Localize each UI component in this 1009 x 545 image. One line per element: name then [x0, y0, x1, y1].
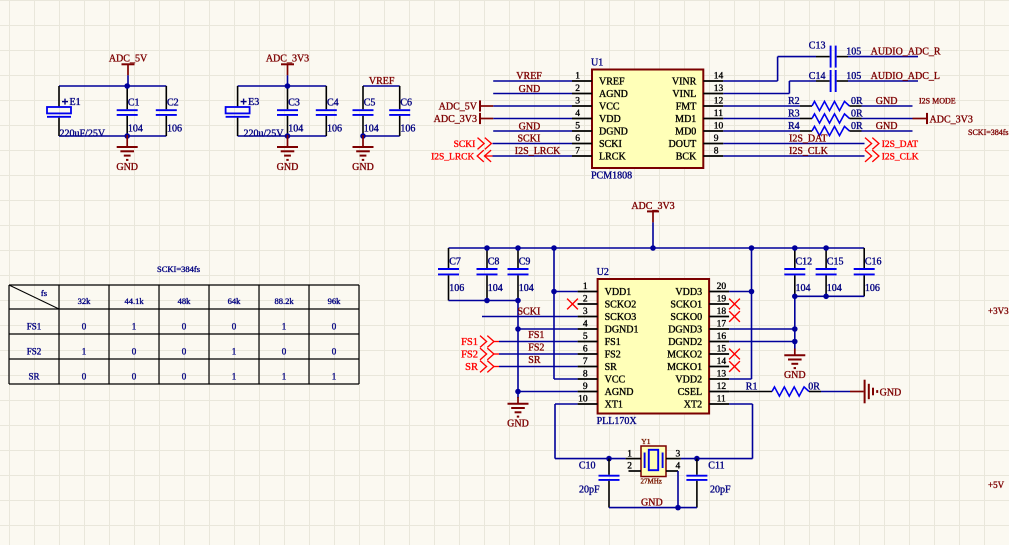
svg-text:3: 3: [676, 449, 681, 459]
svg-text:SCKO3: SCKO3: [605, 312, 637, 323]
svg-text:AUDIO_ADC_R: AUDIO_ADC_R: [871, 47, 941, 58]
svg-text:105: 105: [846, 71, 861, 82]
svg-text:+3V3: +3V3: [988, 306, 1009, 316]
svg-text:I2S_DAT: I2S_DAT: [789, 133, 827, 144]
svg-text:MD1: MD1: [675, 114, 696, 125]
svg-text:LRCK: LRCK: [599, 152, 626, 163]
svg-text:5: 5: [575, 121, 580, 131]
svg-text:0: 0: [82, 322, 87, 332]
svg-text:C10: C10: [579, 460, 596, 471]
svg-text:R3: R3: [788, 108, 800, 119]
svg-text:20pF: 20pF: [579, 485, 600, 496]
svg-text:15: 15: [717, 344, 727, 354]
svg-text:0: 0: [132, 372, 137, 382]
svg-text:4: 4: [676, 462, 681, 472]
svg-text:SCKI=384fs: SCKI=384fs: [968, 128, 1009, 137]
svg-text:DOUT: DOUT: [669, 139, 697, 150]
svg-text:MCKO1: MCKO1: [667, 362, 702, 373]
svg-text:1: 1: [282, 322, 287, 332]
svg-text:VREF: VREF: [516, 71, 542, 82]
svg-text:9: 9: [714, 134, 719, 144]
svg-text:12: 12: [714, 96, 724, 106]
svg-text:1: 1: [82, 347, 87, 357]
svg-text:FS2: FS2: [461, 349, 478, 360]
svg-text:0: 0: [182, 322, 187, 332]
svg-text:FS1: FS1: [461, 337, 478, 348]
svg-text:106: 106: [400, 123, 415, 134]
svg-text:14: 14: [714, 71, 724, 81]
svg-text:PCM1808: PCM1808: [591, 171, 632, 182]
svg-text:XT2: XT2: [684, 400, 702, 411]
svg-text:18: 18: [717, 307, 727, 317]
svg-text:VINR: VINR: [672, 77, 697, 88]
svg-text:DGND: DGND: [599, 127, 628, 138]
svg-text:8: 8: [714, 146, 719, 156]
svg-text:FS1: FS1: [605, 337, 621, 348]
svg-text:0R: 0R: [851, 108, 863, 119]
svg-text:8: 8: [583, 369, 588, 379]
svg-text:GND: GND: [876, 121, 898, 132]
svg-text:FS1: FS1: [528, 330, 544, 341]
svg-text:C8: C8: [488, 257, 500, 268]
svg-text:ADC_3V3: ADC_3V3: [434, 114, 477, 125]
svg-text:0: 0: [232, 322, 237, 332]
svg-text:220uF/25V: 220uF/25V: [60, 128, 106, 139]
svg-text:R1: R1: [746, 381, 758, 392]
svg-text:3: 3: [575, 96, 580, 106]
svg-text:I2S MODE: I2S MODE: [919, 97, 956, 106]
svg-text:ADC_3V3: ADC_3V3: [631, 201, 674, 212]
svg-text:C3: C3: [288, 98, 300, 109]
svg-text:SCKO2: SCKO2: [605, 300, 637, 311]
svg-text:C9: C9: [519, 257, 531, 268]
svg-text:C16: C16: [865, 257, 882, 268]
svg-text:10: 10: [578, 394, 588, 404]
svg-text:0: 0: [332, 347, 337, 357]
svg-text:SCKI: SCKI: [518, 306, 541, 317]
svg-text:2: 2: [627, 462, 632, 472]
svg-text:FS2: FS2: [528, 342, 544, 353]
svg-text:VCC: VCC: [599, 102, 620, 113]
svg-text:U1: U1: [591, 58, 603, 69]
svg-text:1: 1: [575, 71, 580, 81]
svg-text:FMT: FMT: [676, 102, 697, 113]
svg-text:106: 106: [865, 283, 880, 294]
svg-text:1: 1: [132, 322, 137, 332]
svg-text:104: 104: [519, 283, 534, 294]
svg-text:0R: 0R: [851, 121, 863, 132]
svg-text:1: 1: [232, 372, 237, 382]
svg-text:13: 13: [717, 369, 727, 379]
svg-text:7: 7: [583, 357, 588, 367]
svg-text:ADC_3V3: ADC_3V3: [266, 54, 309, 65]
svg-text:VREF: VREF: [369, 76, 395, 87]
svg-text:GND: GND: [641, 497, 663, 508]
svg-text:17: 17: [717, 319, 727, 329]
svg-text:10: 10: [714, 121, 724, 131]
svg-text:GND: GND: [277, 162, 299, 173]
svg-text:220u/25V: 220u/25V: [244, 128, 285, 139]
svg-text:0: 0: [332, 322, 337, 332]
svg-text:VDD3: VDD3: [675, 287, 702, 298]
svg-text:104: 104: [488, 283, 503, 294]
svg-text:ADC_5V: ADC_5V: [109, 54, 148, 65]
svg-text:AUDIO_ADC_L: AUDIO_ADC_L: [871, 71, 940, 82]
svg-text:64k: 64k: [228, 296, 242, 306]
svg-text:PLL170X: PLL170X: [597, 416, 638, 427]
svg-text:GND: GND: [519, 84, 541, 95]
svg-text:104: 104: [827, 283, 842, 294]
svg-text:R2: R2: [788, 96, 800, 107]
svg-text:GND: GND: [784, 370, 806, 381]
svg-text:DGND1: DGND1: [605, 325, 639, 336]
svg-text:106: 106: [449, 283, 464, 294]
svg-text:SCKI: SCKI: [518, 134, 541, 145]
svg-text:104: 104: [796, 283, 811, 294]
svg-text:I2S_DAT: I2S_DAT: [882, 140, 919, 150]
svg-text:27MHz: 27MHz: [641, 478, 662, 486]
svg-text:C14: C14: [809, 71, 826, 82]
svg-text:C12: C12: [796, 257, 813, 268]
svg-text:SR: SR: [465, 362, 478, 373]
svg-text:0: 0: [182, 347, 187, 357]
svg-text:1: 1: [282, 372, 287, 382]
svg-text:MCKO2: MCKO2: [667, 350, 702, 361]
svg-text:4: 4: [583, 319, 588, 329]
svg-text:96k: 96k: [328, 296, 342, 306]
svg-text:32k: 32k: [78, 296, 92, 306]
svg-text:19: 19: [717, 294, 727, 304]
svg-text:FS2: FS2: [27, 347, 42, 357]
svg-text:U2: U2: [597, 267, 609, 278]
svg-text:6: 6: [583, 344, 588, 354]
svg-text:1: 1: [332, 372, 337, 382]
svg-text:2: 2: [575, 84, 580, 94]
svg-text:E3: E3: [248, 97, 259, 108]
svg-text:GND: GND: [352, 162, 374, 173]
svg-text:104: 104: [288, 123, 303, 134]
svg-text:I2S_LRCK: I2S_LRCK: [431, 152, 474, 162]
svg-text:2: 2: [583, 294, 588, 304]
svg-text:105: 105: [846, 46, 861, 57]
svg-text:I2S_LRCK: I2S_LRCK: [515, 146, 561, 157]
svg-text:20: 20: [717, 282, 727, 292]
svg-text:1: 1: [583, 282, 588, 292]
svg-text:fs: fs: [41, 288, 47, 298]
svg-text:5: 5: [583, 332, 588, 342]
svg-text:1: 1: [627, 449, 632, 459]
svg-text:GND: GND: [116, 162, 138, 173]
svg-text:GND: GND: [519, 121, 541, 132]
svg-text:104: 104: [364, 123, 379, 134]
svg-text:ADC_5V: ADC_5V: [439, 101, 478, 112]
svg-text:ADC_3V3: ADC_3V3: [930, 114, 973, 125]
svg-text:0: 0: [182, 372, 187, 382]
svg-text:11: 11: [717, 394, 726, 404]
svg-text:12: 12: [717, 382, 727, 392]
svg-text:20pF: 20pF: [710, 485, 731, 496]
svg-text:0: 0: [132, 347, 137, 357]
svg-text:I2S_CLK: I2S_CLK: [789, 146, 829, 157]
svg-text:7: 7: [575, 146, 580, 156]
svg-text:11: 11: [714, 109, 723, 119]
svg-text:C6: C6: [400, 98, 412, 109]
svg-text:0: 0: [82, 372, 87, 382]
svg-text:C5: C5: [364, 98, 376, 109]
svg-text:GND: GND: [880, 388, 902, 399]
svg-text:6: 6: [575, 134, 580, 144]
svg-text:44.1k: 44.1k: [124, 296, 144, 306]
svg-text:GND: GND: [507, 419, 529, 430]
svg-text:4: 4: [575, 109, 580, 119]
svg-text:+5V: +5V: [988, 480, 1005, 490]
svg-text:C1: C1: [128, 98, 140, 109]
svg-text:FS1: FS1: [27, 322, 42, 332]
svg-text:SR: SR: [605, 362, 618, 373]
svg-text:0R: 0R: [808, 381, 820, 392]
svg-text:14: 14: [717, 357, 727, 367]
svg-text:BCK: BCK: [676, 152, 697, 163]
svg-text:SCKO0: SCKO0: [670, 312, 702, 323]
svg-text:13: 13: [714, 84, 724, 94]
svg-text:VDD: VDD: [599, 114, 621, 125]
svg-text:VDD1: VDD1: [605, 287, 632, 298]
svg-text:0: 0: [282, 347, 287, 357]
svg-text:CSEL: CSEL: [678, 387, 702, 398]
svg-text:3: 3: [583, 307, 588, 317]
svg-text:48k: 48k: [178, 296, 192, 306]
svg-text:I2S_CLK: I2S_CLK: [882, 152, 919, 162]
svg-text:AGND: AGND: [605, 387, 634, 398]
svg-text:SCKI: SCKI: [454, 140, 476, 150]
svg-text:106: 106: [327, 123, 342, 134]
svg-text:C13: C13: [809, 41, 826, 52]
svg-text:SR: SR: [528, 355, 541, 366]
svg-text:C4: C4: [327, 98, 339, 109]
svg-text:SCKO1: SCKO1: [670, 300, 702, 311]
svg-text:C15: C15: [827, 257, 844, 268]
svg-text:R4: R4: [788, 121, 800, 132]
svg-text:88.2k: 88.2k: [274, 296, 294, 306]
svg-text:C2: C2: [167, 98, 179, 109]
svg-text:GND: GND: [876, 96, 898, 107]
svg-text:DGND3: DGND3: [668, 325, 702, 336]
svg-text:9: 9: [583, 382, 588, 392]
svg-text:E1: E1: [70, 97, 81, 108]
svg-text:AGND: AGND: [599, 89, 628, 100]
svg-text:XT1: XT1: [605, 400, 623, 411]
svg-text:DGND2: DGND2: [668, 337, 702, 348]
svg-text:Y1: Y1: [641, 437, 650, 446]
svg-text:C11: C11: [708, 460, 724, 471]
svg-text:1: 1: [232, 347, 237, 357]
svg-text:VINL: VINL: [672, 89, 696, 100]
svg-text:VDD2: VDD2: [675, 375, 702, 386]
svg-text:C7: C7: [449, 257, 461, 268]
svg-text:0R: 0R: [851, 96, 863, 107]
svg-text:104: 104: [128, 123, 143, 134]
svg-text:SR: SR: [28, 372, 39, 382]
svg-text:106: 106: [167, 123, 182, 134]
svg-text:16: 16: [717, 332, 727, 342]
svg-text:FS2: FS2: [605, 350, 621, 361]
svg-text:VCC: VCC: [605, 375, 626, 386]
svg-text:VREF: VREF: [599, 77, 625, 88]
svg-text:SCKI: SCKI: [599, 139, 622, 150]
svg-text:SCKI=384fs: SCKI=384fs: [157, 264, 200, 274]
svg-text:MD0: MD0: [675, 127, 696, 138]
